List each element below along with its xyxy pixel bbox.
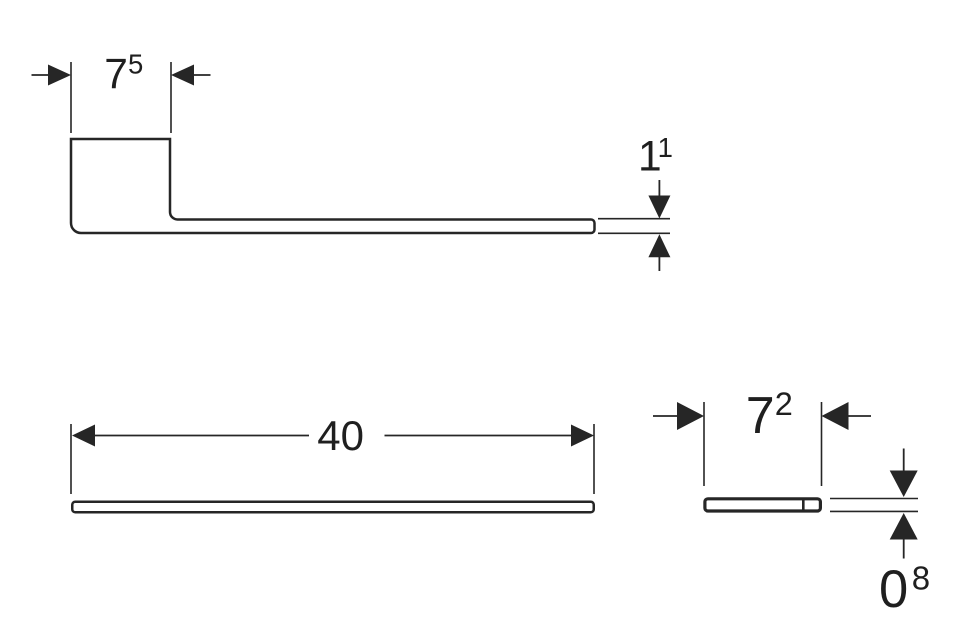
svg-text:40: 40 — [317, 412, 364, 459]
